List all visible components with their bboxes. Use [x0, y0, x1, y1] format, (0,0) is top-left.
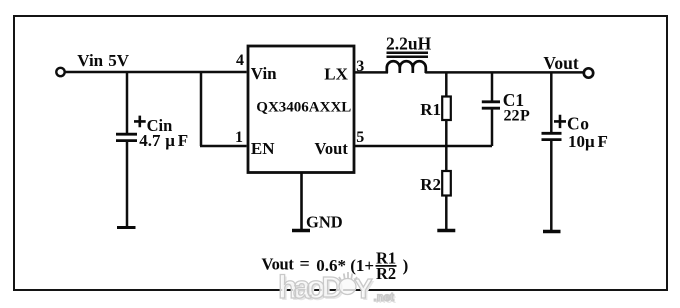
- op-amp U1 QX3406AXXL IC body: [248, 46, 354, 173]
- wire: Cin to ground: [126, 141, 129, 227]
- svg-text:μ: μ: [585, 132, 595, 151]
- wire: input terminal to IC pin4: [65, 71, 246, 74]
- svg-text:EN: EN: [251, 139, 275, 158]
- resistor R2: [420, 171, 451, 196]
- svg-text:4.7: 4.7: [139, 131, 161, 150]
- wire: R2 bottom lead: [445, 196, 448, 230]
- pin 1 EN: [235, 129, 275, 158]
- wire: EN branch from Vin rail: [200, 72, 247, 146]
- svg-text:Vin: Vin: [251, 64, 277, 83]
- svg-text:R1: R1: [420, 100, 441, 119]
- wire: Co bottom lead: [550, 140, 553, 231]
- wire: C1 top lead: [491, 72, 494, 102]
- svg-text:): ): [403, 256, 409, 275]
- svg-text:QX3406AXXL: QX3406AXXL: [256, 100, 351, 116]
- svg-text:.net: .net: [374, 292, 395, 304]
- ground (IC GND): [292, 212, 343, 231]
- ground (Co): [543, 230, 561, 233]
- svg-text:GND: GND: [306, 212, 343, 231]
- wire: Co top lead: [550, 72, 553, 133]
- svg-text:5: 5: [356, 129, 364, 146]
- wire: inductor to Vout terminal: [425, 71, 583, 74]
- formula Vout = 0.6*(1+R1/R2): [262, 248, 409, 283]
- pin 3 LX: [324, 58, 364, 83]
- svg-text:Vout: Vout: [315, 139, 349, 158]
- inductor L1 2.2uH: [386, 34, 432, 74]
- wire: C1 bottom lead: [491, 109, 494, 147]
- svg-text:=: =: [300, 254, 310, 274]
- wire: IC GND stem: [300, 173, 303, 230]
- wire: R1 bottom to feedback node to R2 top: [445, 120, 448, 171]
- svg-text:P: P: [520, 107, 530, 124]
- capacitor Co: [542, 114, 608, 151]
- svg-text:4: 4: [236, 52, 244, 69]
- ground (R2): [437, 229, 455, 232]
- wire: LX pin to inductor: [354, 71, 388, 74]
- wire: R1 top lead: [445, 72, 448, 97]
- svg-text:μ: μ: [165, 131, 175, 150]
- capacitor Cin: [116, 116, 188, 150]
- svg-text:R2: R2: [420, 175, 441, 194]
- svg-text:2.2uH: 2.2uH: [386, 34, 432, 54]
- resistor R1: [420, 97, 451, 121]
- svg-text:Co: Co: [567, 114, 590, 134]
- watermark haoDY.net: [278, 269, 396, 307]
- svg-text:0.6* (1+: 0.6* (1+: [316, 256, 374, 275]
- pin 4 Vin: [236, 52, 277, 83]
- svg-text:22: 22: [504, 107, 520, 124]
- pin 5 Vout: [315, 129, 365, 158]
- svg-text:Vin: Vin: [77, 51, 103, 70]
- ground (Cin): [117, 226, 136, 229]
- svg-text:1: 1: [235, 129, 243, 146]
- wire: feedback net pin5 to C1 bottom: [354, 145, 492, 148]
- wire: Cin branch vertical: [126, 72, 129, 134]
- svg-text:F: F: [178, 131, 188, 150]
- svg-text:Vout: Vout: [543, 53, 579, 73]
- capacitor C1: [482, 90, 530, 124]
- svg-text:10: 10: [568, 132, 585, 151]
- input terminal Vin: [56, 51, 129, 76]
- svg-text:5V: 5V: [108, 51, 130, 70]
- svg-text:R2: R2: [376, 264, 396, 283]
- svg-text:F: F: [598, 132, 608, 151]
- output terminal Vout: [543, 53, 593, 78]
- svg-text:LX: LX: [324, 64, 348, 83]
- svg-text:Vout: Vout: [262, 254, 295, 273]
